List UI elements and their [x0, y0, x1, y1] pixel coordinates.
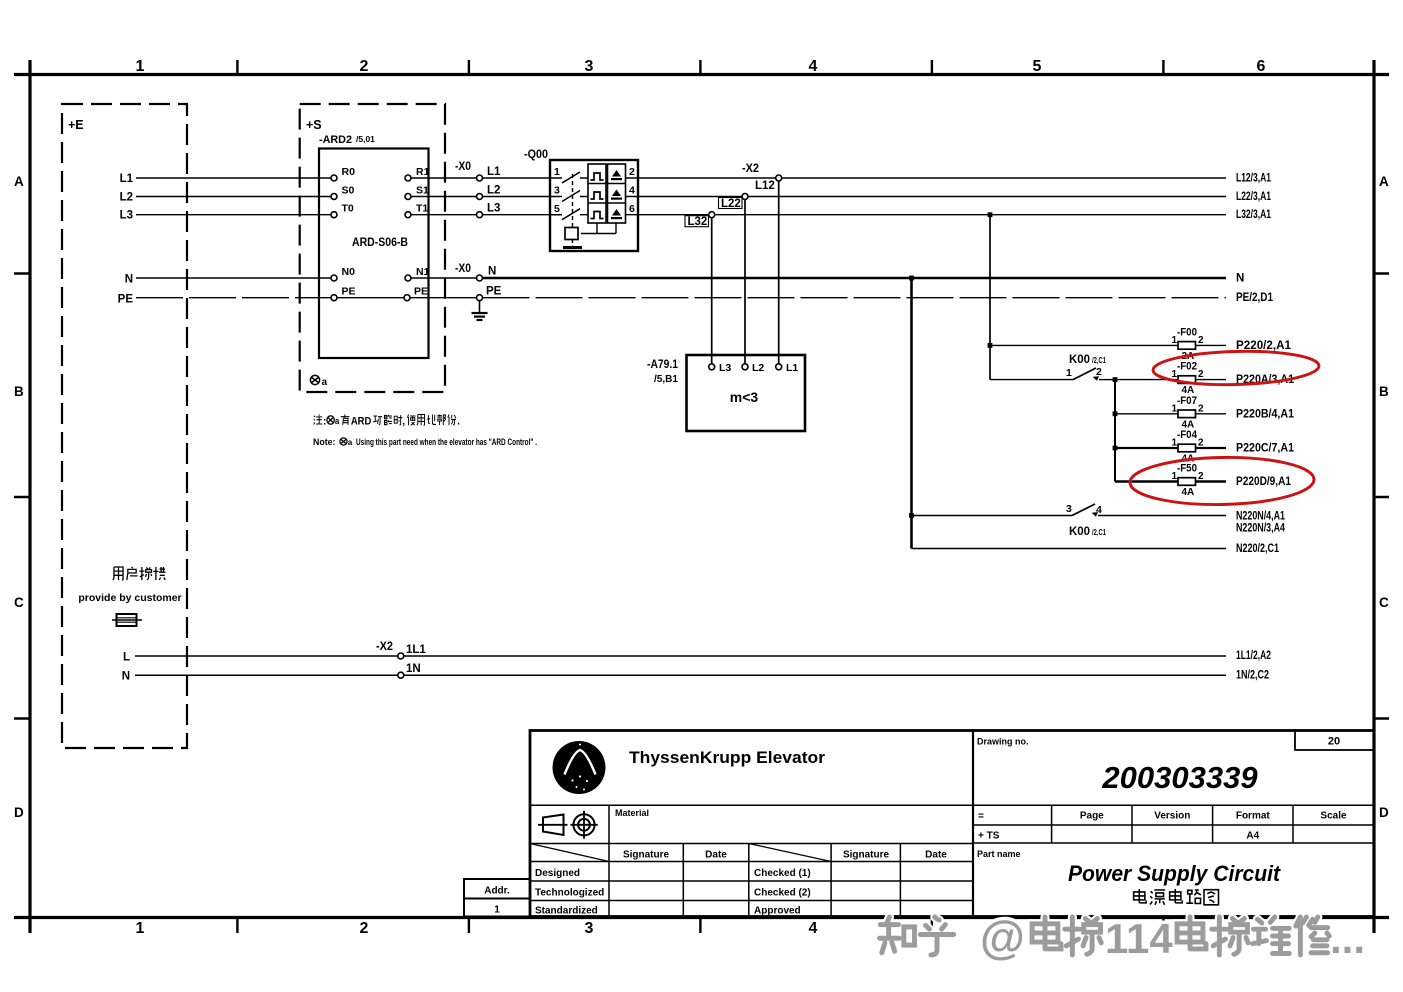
svg-text:T1: T1	[416, 203, 428, 215]
company logo	[553, 741, 606, 794]
svg-text:1: 1	[136, 58, 145, 75]
svg-text:C: C	[1379, 595, 1389, 610]
column numbers top	[136, 58, 1266, 75]
wire L2 X0 to Q00	[483, 196, 551, 198]
terminal X2 L12	[776, 175, 782, 181]
fuse F04	[1171, 429, 1226, 465]
title block main divider	[972, 731, 974, 917]
fuse F07	[1171, 395, 1226, 431]
wire PE to X0	[410, 297, 477, 299]
svg-text:4A: 4A	[1182, 487, 1195, 498]
svg-text:-A79.1: -A79.1	[647, 359, 679, 371]
svg-text:B: B	[14, 384, 24, 399]
svg-text:K00: K00	[1069, 526, 1090, 538]
part name chinese: dian yuan dian lu tu	[1134, 889, 1219, 905]
svg-text:1: 1	[1066, 367, 1072, 379]
diagonal cells	[530, 844, 831, 862]
terminal X0 L1	[477, 175, 483, 181]
svg-text:B: B	[1379, 384, 1389, 399]
right table lines	[973, 805, 1374, 843]
svg-text:/2,C1: /2,C1	[1092, 527, 1106, 537]
A79.1 pin L3	[709, 364, 715, 370]
red highlight ellipse F02	[1153, 349, 1320, 386]
svg-text:2: 2	[629, 166, 635, 178]
svg-text:L2: L2	[487, 185, 500, 197]
svg-text:provide by customer: provide by customer	[78, 592, 181, 604]
junction N drop	[909, 276, 914, 281]
wire F50 branch	[1115, 480, 1178, 482]
ARD2 pin S1	[405, 194, 411, 200]
row letters	[14, 174, 1389, 820]
svg-text:T0: T0	[342, 203, 354, 215]
wire L3 X0 to Q00	[483, 214, 551, 216]
ARD2 pin N0	[331, 275, 337, 281]
svg-text:L12: L12	[755, 180, 775, 192]
wire N main (thick)	[483, 277, 1227, 280]
wire F04 branch	[1115, 447, 1178, 449]
node a marker in +S box	[310, 375, 319, 384]
svg-text:2: 2	[360, 58, 369, 75]
wire N220N out	[1098, 515, 1226, 517]
terminal X0 L3	[477, 212, 483, 218]
wire F02 branch	[1115, 379, 1178, 381]
wire S1 to X0	[411, 196, 477, 198]
ARD2 pin PE left	[331, 295, 337, 301]
red highlight ellipse F50	[1130, 456, 1315, 506]
svg-text:L3: L3	[487, 203, 500, 215]
Q00 magnetic symbols	[611, 170, 622, 219]
svg-text:Power Supply Circuit: Power Supply Circuit	[1068, 861, 1282, 886]
wire N drop vertical (thick)	[910, 278, 913, 549]
terminal X2 L32	[709, 212, 715, 218]
+S machine room enclosure (dashed)	[300, 104, 445, 392]
svg-text:a: a	[322, 377, 328, 388]
svg-text:A: A	[14, 174, 24, 189]
svg-text:1: 1	[136, 920, 145, 937]
title block left table lines	[530, 805, 973, 916]
wire drop L3 to phase monitor	[711, 218, 713, 364]
svg-text:N1: N1	[416, 266, 430, 278]
ARD2 pin S0	[331, 194, 337, 200]
svg-text:Signature: Signature	[843, 850, 890, 861]
wire PE left (dashed)	[136, 297, 331, 299]
table headers	[623, 850, 947, 861]
svg-text:C: C	[14, 595, 24, 610]
svg-text:-F07: -F07	[1177, 395, 1197, 407]
svg-text:1: 1	[554, 166, 560, 178]
svg-text:4: 4	[809, 920, 818, 937]
svg-text:Checked (2): Checked (2)	[754, 888, 811, 899]
junction K00 out	[1113, 377, 1118, 382]
ARD2 pin PE right	[404, 295, 410, 301]
junction bus F07	[1113, 411, 1118, 416]
svg-text:@: @	[980, 911, 1025, 963]
svg-text:PE: PE	[486, 286, 502, 298]
Q00 thermal trip cells	[588, 164, 606, 223]
wire L customer	[135, 655, 1226, 657]
svg-text:3: 3	[1066, 503, 1072, 515]
svg-text:-X2: -X2	[376, 641, 393, 653]
wire L3 left	[136, 214, 331, 216]
column numbers bottom	[136, 920, 818, 937]
svg-text:3: 3	[585, 58, 594, 75]
svg-text:200303339: 200303339	[1101, 760, 1258, 795]
svg-text:Using this part need when the: Using this part need when the elevator h…	[356, 437, 537, 447]
svg-text:N0: N0	[342, 266, 356, 278]
svg-text:L22/3,A1: L22/3,A1	[1236, 191, 1271, 203]
svg-text:Date: Date	[925, 850, 947, 861]
svg-text:L: L	[123, 652, 130, 664]
A79.1 pin L2	[742, 364, 748, 370]
svg-text:3: 3	[585, 920, 594, 937]
projection symbol target	[571, 811, 598, 839]
svg-text:5: 5	[1033, 58, 1042, 75]
ARD2 pin R1	[405, 175, 411, 181]
Q00 thermal symbols	[591, 173, 604, 219]
svg-text:D: D	[14, 805, 24, 820]
fuse F00	[1171, 327, 1226, 363]
svg-text:K00: K00	[1069, 354, 1090, 366]
wire fuse bus vertical	[1114, 380, 1116, 482]
svg-text:L3: L3	[120, 210, 133, 222]
wire drop L2 to phase monitor	[744, 200, 746, 365]
terminal X2 L22	[742, 194, 748, 200]
svg-text:L22: L22	[721, 198, 741, 210]
svg-text:N220N/4,A1: N220N/4,A1	[1236, 511, 1285, 523]
wire L1 Q00 to right edge	[638, 177, 1226, 179]
svg-text:L32: L32	[688, 216, 708, 228]
net labels right edge	[1236, 173, 1295, 682]
svg-text:S1: S1	[416, 185, 429, 197]
svg-text:L2: L2	[752, 362, 764, 374]
svg-text:P220B/4,A1: P220B/4,A1	[1236, 408, 1295, 420]
wire N left	[136, 277, 331, 279]
Q00 pole 1 blade	[550, 172, 580, 183]
wire N220N branch to K00	[912, 515, 1073, 517]
svg-text:...: ...	[1330, 915, 1365, 962]
svg-text:Scale: Scale	[1320, 811, 1347, 822]
ARD2 device box U ARD	[319, 149, 429, 359]
ground symbol at X0 PE	[472, 301, 488, 320]
wire L3 Q00 to right edge	[638, 214, 1226, 216]
wire N220 bottom out	[912, 548, 1227, 550]
ARD2 pin R0	[331, 175, 337, 181]
customer fuse symbol	[112, 614, 142, 626]
wire N customer	[135, 674, 1226, 676]
phase monitor A79.1 box	[687, 355, 806, 431]
wire L2 Q00 to right edge	[638, 196, 1226, 198]
svg-text:Approved: Approved	[754, 906, 801, 917]
svg-text:L1: L1	[120, 173, 134, 185]
svg-text:/5,B1: /5,B1	[654, 374, 678, 385]
svg-text:Checked (1): Checked (1)	[754, 868, 811, 879]
svg-text:,: ,	[402, 416, 405, 428]
wire F00 branch	[990, 344, 1178, 346]
svg-text:L1: L1	[786, 362, 798, 374]
Q00 linkage (dashed)	[572, 174, 574, 228]
svg-text:ThyssenKrupp Elevator: ThyssenKrupp Elevator	[629, 749, 826, 767]
svg-text:PE: PE	[414, 286, 428, 298]
wire L1 X0 to Q00	[483, 177, 551, 179]
svg-text:2: 2	[1198, 403, 1204, 414]
svg-text:L2: L2	[120, 192, 133, 204]
Q00 pole 3 blade	[550, 209, 580, 220]
svg-text:PE/2,D1: PE/2,D1	[1236, 292, 1274, 304]
svg-text:Standardized: Standardized	[535, 906, 598, 917]
fuse F02	[1171, 361, 1226, 397]
terminal X0 N	[477, 275, 483, 281]
svg-text:R1: R1	[416, 166, 430, 178]
svg-text:5: 5	[554, 203, 560, 215]
circuit breaker Q00 box	[550, 160, 638, 251]
svg-text:-ARD2: -ARD2	[319, 134, 352, 146]
junction on L3 feed	[988, 212, 993, 217]
svg-text:1N: 1N	[406, 663, 421, 675]
svg-text:1L1: 1L1	[406, 644, 426, 656]
svg-text:Page: Page	[1080, 811, 1104, 822]
Q00 magnetic trip cells	[608, 164, 626, 223]
svg-text::: :	[323, 416, 326, 428]
svg-text:+ TS: + TS	[978, 831, 1000, 842]
watermark zhihu elevator114	[880, 917, 1330, 955]
svg-text:a: a	[348, 438, 353, 447]
svg-text:2: 2	[1198, 335, 1204, 346]
junction F00 branch	[988, 343, 993, 348]
wire feed drop from L3	[989, 215, 991, 380]
table row labels	[535, 868, 811, 917]
svg-text:Version: Version	[1154, 811, 1190, 822]
Q00 pole 2 blade	[550, 191, 580, 202]
wire feed to K00	[990, 379, 1073, 381]
sheet number box	[1295, 731, 1374, 751]
svg-text:P220C/7,A1: P220C/7,A1	[1236, 443, 1295, 455]
terminal X0 L2	[477, 194, 483, 200]
ARD2 pin T1	[405, 212, 411, 218]
svg-text:N: N	[122, 671, 130, 683]
svg-text:-X2: -X2	[742, 163, 759, 175]
svg-text:3: 3	[554, 185, 560, 197]
svg-text:L12/3,A1: L12/3,A1	[1236, 173, 1271, 185]
fuse F50	[1171, 463, 1226, 499]
svg-text:2: 2	[1198, 369, 1204, 380]
svg-text:L3: L3	[719, 362, 731, 374]
svg-text:Note:: Note:	[313, 437, 336, 447]
svg-text:Material: Material	[615, 808, 649, 818]
junction bus F04	[1113, 446, 1118, 451]
svg-text:-F02: -F02	[1177, 361, 1197, 373]
svg-text:PE: PE	[118, 294, 134, 306]
svg-text:ARD: ARD	[351, 416, 372, 428]
ARD2 pin T0	[331, 212, 337, 218]
svg-text:N220/2,C1: N220/2,C1	[1236, 543, 1279, 555]
Addr box	[464, 879, 530, 917]
ARD2 internal PE wire	[337, 297, 404, 299]
wire T1 to X0	[411, 214, 477, 216]
title block outer frame	[530, 731, 1374, 917]
terminal X2 1N	[398, 672, 404, 678]
svg-text:D: D	[1379, 805, 1389, 820]
wire N1 to X0	[411, 277, 477, 279]
svg-text:A: A	[1379, 174, 1389, 189]
svg-text:+S: +S	[306, 118, 322, 132]
svg-text:-F04: -F04	[1177, 429, 1198, 441]
svg-text:a: a	[335, 416, 340, 427]
svg-text:S0: S0	[342, 185, 355, 197]
svg-text:1: 1	[494, 905, 500, 916]
svg-text:N: N	[488, 266, 496, 278]
svg-text:Addr.: Addr.	[484, 886, 510, 897]
svg-text:Designed: Designed	[535, 868, 580, 879]
svg-text:1L1/2,A2: 1L1/2,A2	[1236, 650, 1271, 662]
svg-text:L32/3,A1: L32/3,A1	[1236, 209, 1271, 221]
svg-text:-Q00: -Q00	[524, 149, 548, 161]
svg-text:PE: PE	[342, 286, 356, 298]
svg-text:N: N	[1236, 273, 1244, 285]
svg-text:R0: R0	[342, 166, 356, 178]
svg-text:+E: +E	[68, 118, 84, 132]
svg-text:-F00: -F00	[1177, 327, 1197, 339]
svg-text:=: =	[978, 811, 984, 822]
svg-text:/5,01: /5,01	[356, 134, 375, 144]
svg-text:114: 114	[1105, 915, 1173, 962]
svg-text:A4: A4	[1246, 831, 1259, 842]
svg-text:Date: Date	[705, 850, 727, 861]
wire PE main (dashed)	[483, 297, 1227, 299]
svg-text:m<3: m<3	[730, 389, 759, 405]
Q00 release element	[565, 223, 616, 246]
+E customer enclosure (dashed)	[62, 104, 187, 748]
svg-text:Signature: Signature	[623, 850, 670, 861]
junction N220N branch	[909, 513, 914, 518]
svg-text:6: 6	[1257, 58, 1266, 75]
ARD2 pin N1	[405, 275, 411, 281]
svg-text:Part name: Part name	[977, 849, 1021, 859]
svg-text:Technologized: Technologized	[535, 888, 604, 899]
svg-text:-X0: -X0	[455, 161, 471, 173]
svg-text:P220D/9,A1: P220D/9,A1	[1236, 476, 1292, 488]
svg-text:1N/2,C2: 1N/2,C2	[1236, 670, 1269, 682]
svg-text:2: 2	[360, 920, 369, 937]
svg-text:.: .	[457, 416, 460, 428]
Q00 release ground mark	[563, 246, 582, 249]
wire L2 left	[136, 196, 331, 198]
projection symbol trapezoid	[543, 815, 564, 836]
note line chinese: zhu: a you ARD gongnengshi, shiyong ci bufen.	[314, 415, 461, 428]
svg-text:20: 20	[1328, 736, 1340, 748]
terminal X0 PE	[477, 295, 483, 301]
svg-text:N: N	[125, 274, 133, 286]
svg-text:/2,C1: /2,C1	[1092, 355, 1106, 365]
customer supply chinese: yonghu tigong	[113, 567, 166, 580]
svg-text:ARD-S06-B: ARD-S06-B	[352, 235, 408, 249]
svg-text:L1: L1	[487, 166, 501, 178]
svg-text:Format: Format	[1236, 811, 1271, 822]
wire drop L1 to phase monitor	[778, 181, 780, 364]
svg-text:-F50: -F50	[1177, 463, 1197, 475]
svg-text:Drawing no.: Drawing no.	[977, 737, 1029, 747]
svg-text:N220N/3,A4: N220N/3,A4	[1236, 523, 1285, 535]
Q00 pole internal wires	[580, 178, 638, 215]
svg-text:4: 4	[629, 185, 635, 197]
wire L1 left	[136, 177, 331, 179]
svg-text:6: 6	[629, 203, 635, 215]
svg-text:4: 4	[809, 58, 818, 75]
terminal X2 1L1	[398, 653, 404, 659]
wire R1 to X0	[411, 177, 477, 179]
A79.1 pin L1	[776, 364, 782, 370]
wire F07 branch	[1115, 413, 1178, 415]
svg-text:-X0: -X0	[455, 263, 471, 275]
